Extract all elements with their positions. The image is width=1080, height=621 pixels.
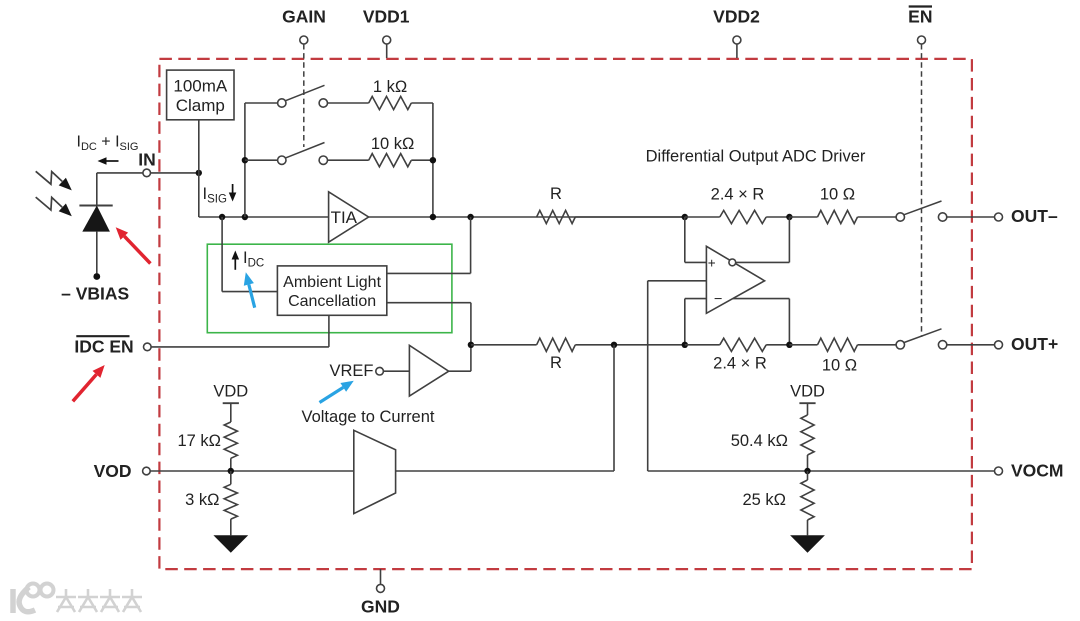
- junction lower row left: [242, 157, 248, 163]
- svg-text:VDD1: VDD1: [363, 7, 410, 27]
- wire IN node: [97, 172, 199, 174]
- wire IN drop to TIA line: [199, 173, 329, 217]
- resistor 10 Ohm (bottom): [789, 338, 896, 351]
- light arrow 2: [36, 197, 72, 216]
- terminal VDD2: [713, 7, 760, 59]
- terminal IDC EN: [74, 336, 151, 356]
- junction VOD feed: [611, 342, 617, 348]
- label 10 kOhm: [371, 135, 415, 153]
- svg-text:25 kΩ: 25 kΩ: [742, 491, 786, 509]
- red annotation arrow at photodiode: [116, 227, 151, 263]
- terminal VREF: [329, 362, 383, 380]
- switch SW3 (OUT-): [896, 201, 947, 221]
- wire ALC bottom output: [387, 303, 471, 372]
- label IDC + ISIG: [77, 133, 139, 153]
- label IDC with arrow: [232, 249, 265, 270]
- svg-text:TIA: TIA: [331, 208, 358, 227]
- wire -input: [685, 299, 707, 345]
- svg-text:10 kΩ: 10 kΩ: [371, 135, 415, 153]
- svg-text:100mA: 100mA: [173, 77, 228, 96]
- label 25 kOhm: [742, 491, 786, 509]
- resistor 2.4xR (bottom): [685, 338, 790, 351]
- resistor 10 Ohm (top): [789, 210, 896, 223]
- junction TIA-in / ALC: [219, 214, 225, 220]
- svg-text:+: +: [708, 256, 716, 271]
- svg-text:Voltage to Current: Voltage to Current: [302, 408, 435, 426]
- current direction arrow (left): [98, 157, 119, 165]
- junction top feedback: [786, 214, 792, 220]
- svg-text:−: −: [714, 291, 722, 307]
- svg-text:3 kΩ: 3 kΩ: [185, 491, 219, 509]
- resistor 50.4 kOhm: [801, 415, 814, 471]
- wire IDC EN: [151, 346, 329, 348]
- junction VOCM divider: [804, 468, 810, 474]
- ground (right divider): [790, 535, 825, 552]
- wire ALC enable drop: [328, 315, 330, 347]
- terminal GAIN: [282, 7, 326, 148]
- blue annotation arrow at IDC: [244, 272, 255, 307]
- resistor 10 kOhm: [328, 154, 433, 167]
- wire VOD to lower path: [396, 345, 614, 471]
- resistor 17 kOhm: [224, 422, 237, 471]
- wire VOD line: [150, 470, 354, 472]
- svg-text:17 kΩ: 17 kΩ: [177, 432, 221, 450]
- label Differential Output ADC Driver: [646, 148, 866, 166]
- wire TIA output: [369, 216, 685, 218]
- switch SW4 (OUT+): [896, 329, 947, 349]
- junction gain rail / lower row: [430, 157, 436, 163]
- svg-text:1 kΩ: 1 kΩ: [373, 78, 407, 96]
- label 10 Ohm top: [820, 186, 855, 204]
- green highlight box: [207, 244, 452, 333]
- svg-text:VREF: VREF: [329, 362, 373, 380]
- wire to OUT-: [947, 216, 995, 218]
- svg-text:VDD2: VDD2: [713, 7, 760, 27]
- svg-text:OUT+: OUT+: [1011, 334, 1058, 354]
- V-to-I converter U4: [354, 430, 396, 513]
- svg-text:10 Ω: 10 Ω: [822, 357, 857, 375]
- terminal GND: [361, 569, 400, 617]
- label 10 Ohm bottom: [822, 357, 857, 375]
- light arrow 1: [36, 171, 72, 190]
- resistor 25 kOhm: [801, 471, 814, 535]
- chip boundary (red dashed): [159, 59, 972, 569]
- resistor R (top): [537, 185, 576, 224]
- svg-text:GAIN: GAIN: [282, 7, 326, 27]
- VDD rail (right): [790, 383, 825, 416]
- wire ALC input drop: [222, 217, 277, 292]
- svg-text:Cancellation: Cancellation: [288, 293, 376, 310]
- junction TIA-in / gain rail: [242, 214, 248, 220]
- svg-text:IN: IN: [138, 149, 156, 169]
- svg-text:Clamp: Clamp: [176, 96, 225, 115]
- blue annotation arrow at VREF: [320, 381, 354, 403]
- wire to OUT+: [947, 344, 995, 346]
- switch SW1 (1k path): [245, 85, 328, 107]
- wire gain rail left: [244, 103, 246, 217]
- svg-text:Ambient Light: Ambient Light: [283, 274, 381, 291]
- wire bottom output feedback: [733, 299, 789, 345]
- svg-text:Differential Output ADC Driver: Differential Output ADC Driver: [646, 148, 866, 166]
- svg-text:VDD: VDD: [790, 383, 825, 401]
- wire lower path from node: [471, 344, 537, 346]
- wire clamp to IN node: [198, 120, 200, 173]
- svg-text:VOD: VOD: [94, 461, 132, 481]
- terminal IN: [138, 149, 156, 176]
- op-amp U3 (fully differential): [706, 246, 764, 313]
- wire VOCM line: [648, 470, 995, 472]
- buffer amp U2: [383, 345, 471, 396]
- junction node A: [682, 214, 688, 220]
- junction TIA out / ALC top: [467, 214, 473, 220]
- label -VBIAS: [61, 283, 129, 303]
- svg-text:R: R: [550, 354, 562, 372]
- resistor 3 kOhm: [224, 471, 237, 535]
- terminal VOCM: [995, 460, 1064, 480]
- svg-text:EN: EN: [908, 7, 932, 27]
- junction bottom feedback: [786, 342, 792, 348]
- label 2.4xR bottom: [713, 355, 767, 373]
- svg-text:10 Ω: 10 Ω: [820, 186, 855, 204]
- ground (left divider): [213, 535, 248, 552]
- svg-text:OUT–: OUT–: [1011, 206, 1058, 226]
- label 50.4 kOhm: [731, 432, 788, 450]
- 100mA clamp block: [167, 70, 234, 120]
- label Voltage to Current: [302, 408, 435, 426]
- op-amp TIA U1: [329, 192, 369, 242]
- photodiode D1: [79, 173, 112, 274]
- label 1 kOhm: [373, 78, 407, 96]
- terminal EN (active low): [908, 7, 932, 338]
- wire ALC top output: [387, 217, 471, 273]
- svg-text:2.4 × R: 2.4 × R: [711, 186, 765, 204]
- svg-text:R: R: [550, 185, 562, 203]
- wire gain rail right: [432, 103, 434, 217]
- resistor 2.4xR (top): [685, 210, 790, 223]
- output bubble: [729, 259, 736, 266]
- svg-text:2.4 × R: 2.4 × R: [713, 355, 767, 373]
- terminal OUT-: [995, 206, 1058, 226]
- node -VBIAS terminal dot: [93, 273, 100, 280]
- svg-text:– VBIAS: – VBIAS: [61, 283, 129, 303]
- label ISIG: [203, 184, 237, 206]
- junction lower path node: [468, 342, 474, 348]
- junction VOD divider: [228, 468, 234, 474]
- label 17 kOhm: [177, 432, 221, 450]
- terminal OUT+: [995, 334, 1059, 354]
- svg-text:GND: GND: [361, 597, 400, 617]
- svg-text:IDC EN: IDC EN: [74, 337, 133, 357]
- resistor R (bottom): [537, 338, 576, 372]
- terminal VOD: [94, 461, 151, 481]
- svg-text:50.4 kΩ: 50.4 kΩ: [731, 432, 788, 450]
- switch SW2 (10k path): [245, 143, 328, 165]
- label 3 kOhm: [185, 491, 219, 509]
- junction TIA out / gain rail: [430, 214, 436, 220]
- wire lower path: [575, 344, 685, 346]
- svg-text:VOCM: VOCM: [1011, 460, 1064, 480]
- wire +input: [685, 217, 707, 262]
- resistor 1 kOhm: [328, 96, 433, 109]
- svg-text:VDD: VDD: [213, 383, 248, 401]
- terminal VDD1: [363, 7, 410, 59]
- label 2.4xR top: [711, 186, 765, 204]
- wire top output feedback: [736, 217, 790, 262]
- ambient light cancellation block: [277, 266, 386, 315]
- watermark: [13, 584, 142, 614]
- red annotation arrow at IDC EN: [73, 365, 105, 401]
- wire top path: [575, 216, 685, 218]
- VDD rail (left): [213, 383, 248, 423]
- junction IN/clamp: [196, 170, 202, 176]
- wire VOCM to amp: [648, 281, 707, 471]
- junction node B: [682, 342, 688, 348]
